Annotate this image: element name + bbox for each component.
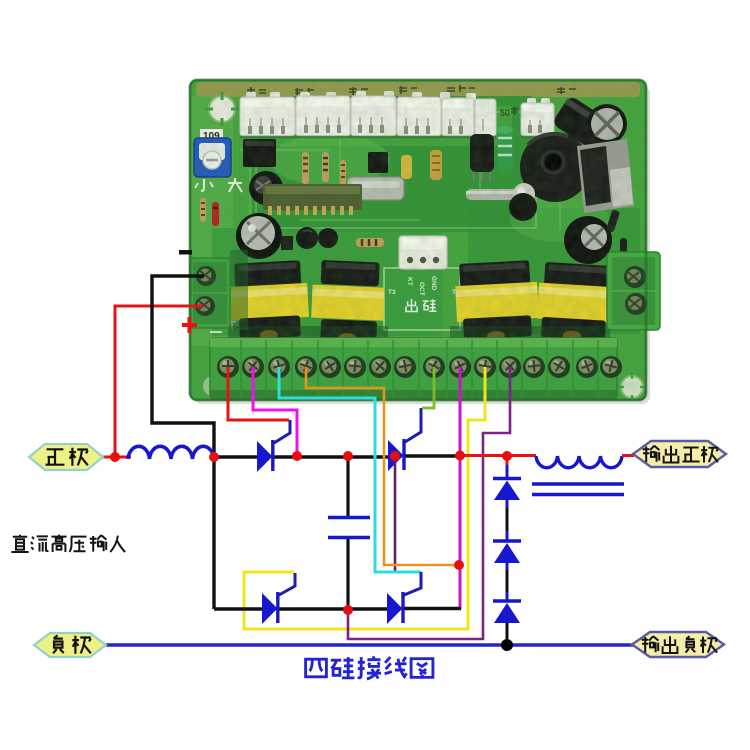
DIP IC with pins xyxy=(263,184,362,210)
connector housing 1 xyxy=(240,97,295,136)
connector tabs xyxy=(246,91,550,105)
plus symbol xyxy=(182,317,197,333)
wire magenta 2 from screw 10 xyxy=(459,367,462,609)
silver axial rod xyxy=(466,189,528,200)
diode chain branch xyxy=(493,456,521,645)
dark patch mid-left xyxy=(212,228,442,336)
node C cathode of Q1 xyxy=(292,451,302,461)
wire purple from screw 12 xyxy=(348,367,510,639)
light green splotch 2 xyxy=(510,198,610,242)
light trace patch xyxy=(262,106,512,146)
bottom terminal strip xyxy=(210,338,617,399)
shadow under transformers xyxy=(228,326,388,342)
two small black caps xyxy=(296,227,318,249)
label hexagon output negative xyxy=(632,632,724,657)
crystal / silver component xyxy=(347,177,404,200)
silkscreen text xiao da xyxy=(0,0,1,1)
transistor TO-92 black xyxy=(470,134,494,172)
wire orange from screw 4 xyxy=(306,367,457,565)
dark patch right xyxy=(468,208,640,334)
capacitor C1 branch bottom xyxy=(346,539,349,610)
capacitor C1 branch top xyxy=(346,456,349,516)
mounting hole bottom-left faint xyxy=(203,376,223,396)
thyristor Q2 xyxy=(388,408,421,471)
connector housing 4 xyxy=(397,97,441,136)
schematic layer xyxy=(11,250,726,679)
mounting hole bottom-right xyxy=(618,373,646,401)
bottom terminal screws xyxy=(217,356,622,378)
wire bottom black segment 3 xyxy=(403,607,461,610)
diode D2 xyxy=(493,539,521,542)
resistor horizontal mid board xyxy=(356,238,384,247)
transformer T1 xyxy=(227,260,310,342)
silkscreen white box top xyxy=(256,112,536,228)
diode D3 xyxy=(493,599,521,602)
dark area left of T1 xyxy=(230,250,248,330)
silkscreen chinese labels above connectors xyxy=(247,85,576,118)
wire bottom black segment 2 xyxy=(278,607,388,610)
transformer T3 xyxy=(454,260,540,343)
label hexagon zhengji positive xyxy=(29,444,103,470)
resistors vertical group xyxy=(200,152,346,222)
small red zener diode xyxy=(212,202,219,226)
electrolytic capacitor small top xyxy=(249,171,283,205)
silkscreen white box center xyxy=(384,268,460,330)
wire red gate Q1 xyxy=(228,367,289,420)
small diodes right xyxy=(606,209,620,232)
potentiometer white dial xyxy=(199,143,225,160)
black relay box xyxy=(243,139,276,167)
left terminal block xyxy=(190,258,230,328)
electrolytic cap right lower xyxy=(564,216,612,264)
inductor L1 xyxy=(128,446,214,459)
wire blue negative bottom xyxy=(106,643,633,646)
label hexagon fuji negative xyxy=(34,633,106,657)
transformer T2 xyxy=(310,260,386,345)
wire red to output label xyxy=(622,454,634,457)
node F output positive junction xyxy=(455,451,465,461)
silkscreen baohu text xyxy=(210,318,236,332)
capacitor C1 xyxy=(328,518,370,538)
mounting hole top-left xyxy=(205,92,239,126)
wire black negative from - terminal xyxy=(152,276,214,457)
dark copper pour patch center xyxy=(252,96,532,232)
electrolytic cap angled top right xyxy=(551,95,613,152)
connector pin metal tips xyxy=(248,125,542,134)
wire cyan from screw 3 to Q4 gate xyxy=(279,367,421,572)
pcb texture overlay xyxy=(190,80,646,400)
wire main top black segment 1 xyxy=(214,455,258,458)
pcb soft shading xyxy=(190,80,646,400)
capacitor C2 output xyxy=(532,484,624,495)
wire green gate Q2 from screw 9 xyxy=(422,367,434,408)
board top olive edge strip xyxy=(196,82,640,97)
board left light band xyxy=(191,96,233,346)
electrolytic capacitor big left xyxy=(236,213,282,259)
node I capacitor C1 bottom xyxy=(343,605,353,615)
thyristor Q4 xyxy=(387,572,421,624)
node D capacitor C1 top xyxy=(343,451,353,461)
title four silicon wiring diagram xyxy=(306,656,433,679)
wire magenta cathode Q1 from screw 2 xyxy=(253,367,297,455)
thyristor Q3 xyxy=(262,573,295,624)
wire red positive from + terminal xyxy=(115,306,203,457)
connector housing 2 xyxy=(296,96,350,136)
connector housing 3 xyxy=(351,96,396,136)
label hexagon output positive xyxy=(633,441,726,467)
PCB photo recreation xyxy=(190,80,660,404)
silkscreen GND OCT labels xyxy=(388,276,460,296)
potentiometer blue body xyxy=(194,138,231,177)
wire main top black segment 3 xyxy=(404,454,460,457)
thyristor Q1 xyxy=(257,420,290,472)
diode D1 xyxy=(493,477,521,480)
heatsink with TO-220 xyxy=(577,139,634,213)
node A positive input junction xyxy=(110,452,120,462)
wire maroon stub from node to cyan xyxy=(394,457,397,572)
wire bottom black segment 1 xyxy=(214,607,263,610)
node H orange-magenta junction xyxy=(454,560,464,570)
silkscreen danggui text xyxy=(406,299,436,312)
white 3-pin connector center xyxy=(399,236,447,269)
node E anode of Q2 xyxy=(390,451,400,461)
green LED resistor xyxy=(497,129,513,172)
silkscreen trace lines xyxy=(240,120,600,230)
small parts lower mid xyxy=(509,193,537,221)
light green splotch xyxy=(270,134,390,186)
board shadow xyxy=(194,86,650,404)
connector housing small right xyxy=(521,103,554,136)
terminal strip block gaps xyxy=(318,339,522,398)
right terminal block xyxy=(607,252,660,330)
text DC high voltage input xyxy=(11,535,125,552)
small components mid board xyxy=(368,152,388,173)
connector housing 6 xyxy=(475,99,496,136)
node B after inductor L1 xyxy=(209,452,219,462)
wire black left vertical xyxy=(212,455,215,609)
connector row white headers xyxy=(240,91,554,137)
potentiometer label 109 xyxy=(200,129,223,141)
node G diode chain top xyxy=(502,451,512,461)
node J negative output junction xyxy=(501,639,513,651)
inductor L2 output xyxy=(536,456,622,468)
PCB board base xyxy=(190,80,646,400)
wire red output main xyxy=(460,454,536,457)
minus symbol xyxy=(179,250,192,255)
wire yellow from screw 11 xyxy=(244,367,485,629)
connector top highlights xyxy=(242,98,552,112)
buzzer big black xyxy=(520,132,590,202)
transformer T4 xyxy=(536,262,621,344)
connector housing 5 xyxy=(442,98,474,136)
wire main top black segment 2 xyxy=(273,455,389,458)
connector pin slots xyxy=(250,117,540,132)
